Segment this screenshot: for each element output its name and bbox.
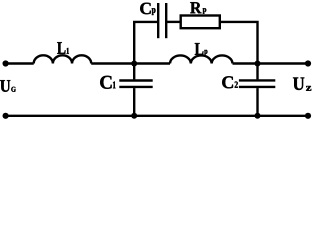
inductor L1 xyxy=(34,55,92,63)
label glyph C2-2 xyxy=(235,82,238,88)
capacitor C2 xyxy=(256,64,258,80)
node junction D (bottom rail / C2) xyxy=(255,113,261,119)
label glyph Lp-L xyxy=(195,43,204,55)
label glyph Cp-p xyxy=(152,8,156,15)
wire Rp to right vertical, down to main line xyxy=(220,22,258,64)
wire main line left segment xyxy=(6,62,34,64)
label glyph Uz-z xyxy=(306,86,311,91)
node terminal top-right xyxy=(305,60,311,66)
node junction C (bottom rail / C1) xyxy=(131,113,137,119)
label glyph L1-1 xyxy=(67,48,69,54)
wire bottom rail xyxy=(6,115,308,117)
label glyph C2-C xyxy=(222,76,233,88)
node junction A (main line / C1) xyxy=(131,61,137,67)
label glyph Rp-R xyxy=(190,2,201,13)
node junction B (main line / C2) xyxy=(255,61,261,67)
label glyph C1-C xyxy=(100,76,111,89)
node terminal bottom-left xyxy=(3,113,9,119)
label glyph C1-1 xyxy=(113,81,116,88)
node terminal top-left xyxy=(3,60,9,66)
wire main line middle segment xyxy=(91,62,170,64)
capacitor Cp xyxy=(157,3,159,38)
label glyph Cp-C xyxy=(140,3,151,15)
label glyph UG-U xyxy=(0,80,10,92)
wire Cp to Rp xyxy=(167,21,181,23)
label glyph UG-G xyxy=(11,87,15,92)
wire main line right segment xyxy=(233,62,309,64)
label glyph L1-L xyxy=(57,42,65,54)
resistor Rp xyxy=(181,16,220,29)
label glyph Uz-U xyxy=(293,78,304,90)
inductor Lp xyxy=(170,55,232,63)
capacitor C1 xyxy=(133,64,135,80)
wire top branch left vertical + horizontal xyxy=(134,22,157,64)
label glyph Lp-p xyxy=(204,50,207,56)
label glyph Rp-p xyxy=(203,8,207,14)
node terminal bottom-right xyxy=(305,113,311,119)
